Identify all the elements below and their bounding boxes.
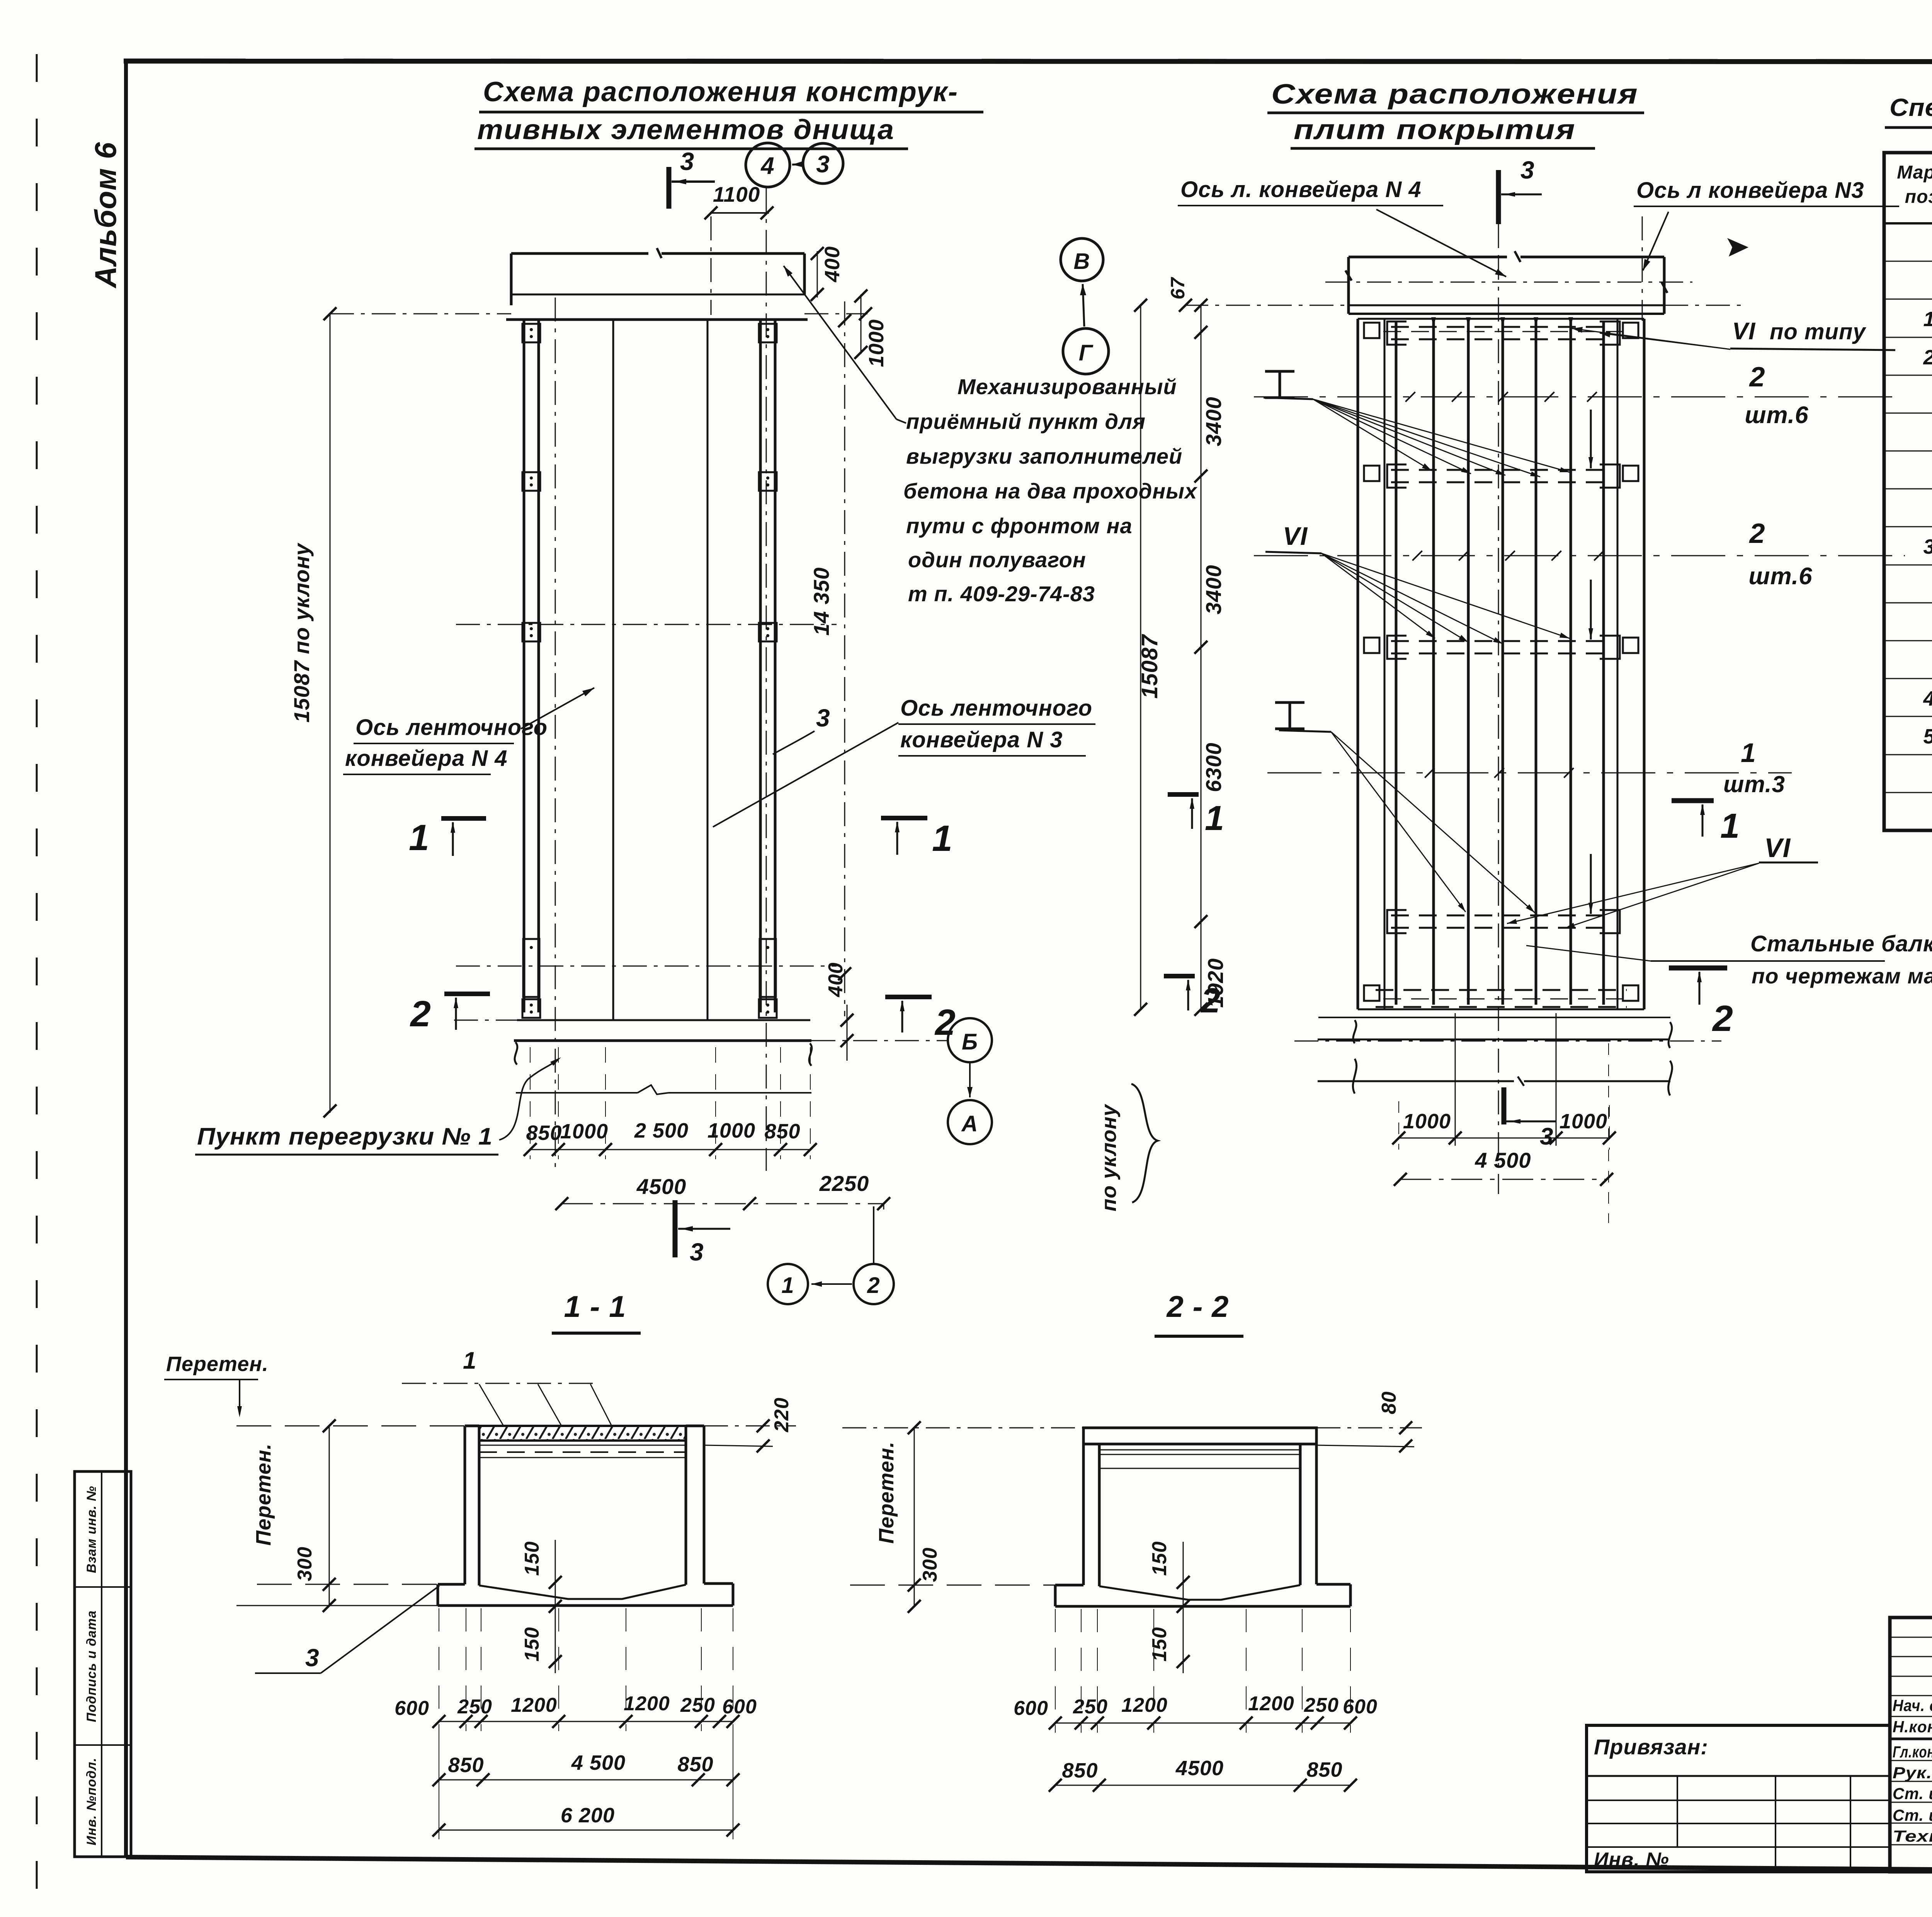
svg-text:4: 4 (760, 153, 774, 179)
svg-text:250: 250 (457, 1696, 492, 1718)
svg-text:220: 220 (770, 1397, 793, 1432)
svg-text:1100: 1100 (713, 182, 760, 206)
svg-text:3: 3 (1923, 535, 1932, 558)
svg-text:Ст. инж.: Ст. инж. (1893, 1784, 1932, 1803)
svg-text:4500: 4500 (636, 1174, 687, 1199)
svg-text:2: 2 (867, 1273, 880, 1298)
svg-text:шт.6: шт.6 (1748, 563, 1812, 590)
svg-text:Ось л конвейера N3: Ось л конвейера N3 (1636, 178, 1864, 203)
svg-text:по чертежам марки КМ: по чертежам марки КМ (1752, 964, 1932, 988)
svg-text:Схема расположения: Схема расположения (1271, 79, 1638, 110)
svg-text:250: 250 (1304, 1694, 1339, 1716)
svg-text:Ось ленточного: Ось ленточного (900, 696, 1092, 721)
svg-text:600: 600 (395, 1697, 429, 1720)
svg-text:600: 600 (1343, 1696, 1378, 1718)
svg-text:Перетен.: Перетен. (875, 1441, 898, 1544)
svg-text:Перетен.: Перетен. (252, 1443, 275, 1546)
svg-text:1000: 1000 (560, 1120, 608, 1143)
svg-text:150: 150 (521, 1627, 543, 1662)
svg-text:Перетен.: Перетен. (166, 1352, 269, 1376)
svg-text:конвейера N 4: конвейера N 4 (345, 746, 507, 771)
svg-text:по типу: по типу (1770, 319, 1866, 344)
svg-text:Альбом 6: Альбом 6 (88, 142, 122, 289)
svg-text:850: 850 (526, 1121, 562, 1145)
svg-text:6 200: 6 200 (561, 1804, 615, 1827)
svg-text:80: 80 (1378, 1391, 1400, 1414)
svg-text:Н.контр.: Н.контр. (1893, 1718, 1932, 1736)
svg-text:2: 2 (1923, 346, 1932, 369)
svg-text:600: 600 (1014, 1697, 1048, 1720)
svg-text:150: 150 (521, 1541, 543, 1576)
svg-text:Инв. №подл.: Инв. №подл. (84, 1757, 99, 1846)
svg-text:по уклону: по уклону (1097, 1104, 1121, 1211)
svg-text:250: 250 (680, 1694, 715, 1716)
svg-text:1: 1 (1741, 738, 1756, 768)
svg-text:2 500: 2 500 (634, 1119, 689, 1142)
svg-text:3: 3 (816, 151, 830, 178)
svg-text:67: 67 (1167, 277, 1189, 299)
svg-text:один полувагон: один полувагон (908, 548, 1086, 572)
svg-text:600: 600 (722, 1696, 757, 1718)
svg-text:Рук. гр.: Рук. гр. (1893, 1764, 1932, 1782)
svg-text:Механизированный: Механизированный (957, 374, 1177, 399)
svg-text:2 - 2: 2 - 2 (1166, 1289, 1229, 1323)
svg-text:3: 3 (680, 147, 694, 175)
svg-text:шт.3: шт.3 (1723, 771, 1785, 797)
svg-text:4 500: 4 500 (1475, 1148, 1531, 1172)
svg-text:14 350: 14 350 (809, 567, 833, 636)
svg-text:3: 3 (1540, 1123, 1553, 1150)
svg-text:Стальные балки: Стальные балки (1750, 931, 1932, 956)
svg-text:1000: 1000 (865, 319, 888, 367)
svg-text:250: 250 (1073, 1696, 1108, 1718)
svg-text:1200: 1200 (624, 1692, 670, 1715)
svg-text:3: 3 (816, 704, 830, 732)
svg-text:Инв. №: Инв. № (1594, 1849, 1669, 1871)
svg-text:Марка,: Марка, (1897, 162, 1932, 183)
svg-text:1 - 1: 1 - 1 (564, 1289, 626, 1323)
svg-text:т п. 409-29-74-83: т п. 409-29-74-83 (908, 582, 1095, 606)
svg-text:пути с фронтом на: пути с фронтом на (906, 514, 1133, 538)
svg-text:Ось л. конвейера N 4: Ось л. конвейера N 4 (1180, 177, 1422, 202)
svg-text:Взам инв. №: Взам инв. № (84, 1486, 99, 1573)
svg-text:1000: 1000 (707, 1119, 755, 1142)
svg-text:В: В (1074, 249, 1090, 274)
svg-text:1200: 1200 (1121, 1694, 1168, 1716)
svg-text:1: 1 (932, 818, 953, 859)
svg-text:6300: 6300 (1201, 742, 1226, 792)
svg-text:приёмный пункт для: приёмный пункт для (906, 409, 1146, 434)
svg-text:300: 300 (919, 1547, 941, 1582)
svg-text:1: 1 (1720, 807, 1740, 845)
svg-text:Б: Б (962, 1029, 978, 1055)
svg-text:2250: 2250 (819, 1171, 869, 1196)
svg-text:1: 1 (463, 1347, 476, 1374)
svg-text:Г: Г (1079, 340, 1094, 366)
svg-text:2: 2 (934, 1002, 956, 1043)
svg-text:1000: 1000 (1560, 1110, 1607, 1133)
svg-text:3: 3 (690, 1238, 704, 1266)
svg-text:4 500: 4 500 (571, 1751, 626, 1774)
svg-text:2: 2 (1748, 518, 1765, 549)
svg-text:А: А (961, 1111, 978, 1136)
svg-text:850: 850 (677, 1753, 713, 1776)
svg-text:850: 850 (448, 1754, 484, 1777)
svg-text:шт.6: шт.6 (1745, 402, 1808, 429)
svg-text:VI: VI (1732, 318, 1756, 345)
svg-text:1: 1 (1923, 308, 1932, 331)
svg-text:1000: 1000 (1403, 1110, 1451, 1133)
svg-text:1: 1 (781, 1273, 794, 1298)
svg-text:Спецификация к схемам располо: Спецификация к схемам расположения конст… (1889, 94, 1932, 121)
svg-text:300: 300 (294, 1546, 316, 1581)
svg-text:850: 850 (1062, 1759, 1098, 1782)
svg-text:15087: 15087 (1137, 634, 1162, 699)
svg-text:Схема расположения конструк-: Схема расположения конструк- (483, 77, 958, 107)
svg-text:1: 1 (409, 817, 430, 858)
svg-text:3: 3 (305, 1644, 320, 1672)
svg-text:поз.: поз. (1905, 187, 1932, 207)
svg-text:5: 5 (1923, 725, 1932, 748)
svg-text:Ось ленточного: Ось ленточного (355, 715, 548, 740)
svg-text:Ст. инж.: Ст. инж. (1893, 1806, 1932, 1824)
svg-text:плит покрытия: плит покрытия (1294, 114, 1576, 145)
svg-text:2: 2 (1748, 362, 1765, 393)
svg-text:850: 850 (764, 1120, 800, 1143)
svg-text:150: 150 (1148, 1627, 1171, 1662)
svg-text:Пункт перегрузки № 1: Пункт перегрузки № 1 (197, 1123, 493, 1150)
svg-text:4: 4 (1923, 687, 1932, 710)
svg-text:VI: VI (1283, 522, 1308, 550)
svg-text:3400: 3400 (1201, 565, 1226, 614)
svg-text:3400: 3400 (1201, 396, 1226, 446)
svg-text:VI: VI (1764, 833, 1791, 863)
svg-text:4500: 4500 (1175, 1757, 1224, 1780)
svg-text:15087 по уклону: 15087 по уклону (289, 543, 314, 723)
svg-text:1200: 1200 (511, 1694, 557, 1716)
svg-text:Техник: Техник (1893, 1827, 1932, 1845)
svg-text:тивных элементов днища: тивных элементов днища (477, 114, 895, 145)
svg-text:Гл.констр.: Гл.констр. (1893, 1743, 1932, 1761)
svg-text:1: 1 (1205, 799, 1225, 838)
svg-text:Привязан:: Привязан: (1594, 1735, 1708, 1759)
svg-text:Нач. отд.: Нач. отд. (1893, 1696, 1932, 1715)
svg-text:3: 3 (1520, 156, 1535, 184)
svg-text:конвейера N 3: конвейера N 3 (900, 727, 1063, 752)
svg-text:1200: 1200 (1248, 1692, 1294, 1715)
svg-text:бетона на два проходных: бетона на два проходных (903, 479, 1198, 503)
svg-text:2: 2 (1712, 998, 1733, 1039)
svg-text:850: 850 (1306, 1758, 1342, 1781)
svg-text:Подпись и дата: Подпись и дата (84, 1610, 99, 1722)
svg-text:2: 2 (1200, 981, 1221, 1020)
svg-text:400: 400 (821, 246, 844, 282)
svg-text:400: 400 (825, 962, 847, 997)
svg-text:2: 2 (410, 993, 431, 1034)
svg-text:150: 150 (1148, 1541, 1171, 1576)
